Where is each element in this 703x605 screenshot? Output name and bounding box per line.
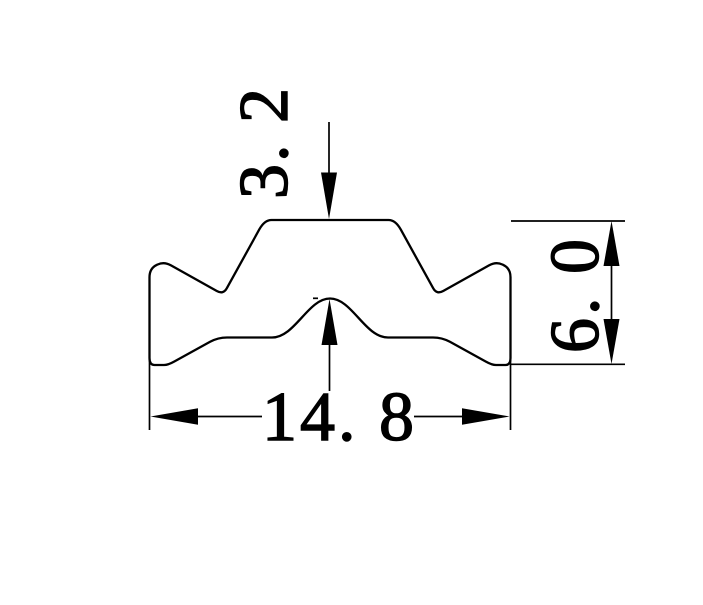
svg-text:14. 8: 14. 8 — [262, 379, 414, 456]
